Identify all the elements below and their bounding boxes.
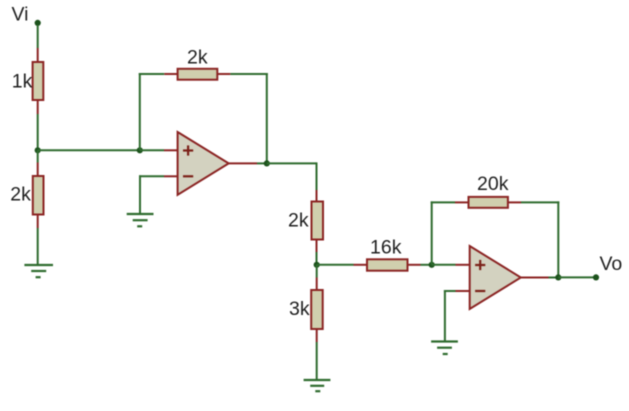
wire down to ground G3 [444, 290, 446, 341]
pin R1 top [37, 48, 39, 63]
minus symbol U2 [475, 290, 485, 292]
wire node D to R6 [317, 264, 354, 266]
node Vo terminal dot [593, 274, 599, 280]
wire node D down [316, 265, 318, 278]
svg-text:2k: 2k [187, 47, 208, 69]
node F junction dot [555, 274, 561, 280]
resistor R2 2k [33, 176, 44, 215]
wire node A down [37, 150, 39, 162]
pin R7 left [455, 201, 469, 203]
wire R5 to ground G4 [316, 342, 318, 380]
pin R3 left [164, 73, 177, 75]
ground G1 [24, 265, 53, 277]
node D junction dot [314, 262, 320, 268]
wire feedback top-left horizontal [139, 73, 165, 75]
resistor R7 20k [469, 197, 508, 208]
node B junction dot [137, 147, 143, 153]
svg-text:Vo: Vo [600, 253, 623, 275]
node E junction dot [429, 262, 435, 268]
pin R3 right [217, 73, 230, 75]
wire node F to Vo terminal [558, 276, 596, 278]
svg-text:2k: 2k [10, 184, 31, 206]
wire down to ground G2 [139, 175, 141, 213]
pin U2 inverting input [456, 290, 470, 292]
wire R2 bottom to ground [37, 228, 39, 265]
pin U1 inverting input [164, 175, 178, 177]
op-amp U1 [178, 132, 229, 195]
node A junction dot [35, 147, 41, 153]
wire node A to node B [38, 149, 140, 151]
svg-text:2k: 2k [288, 209, 309, 231]
pin U2 noninverting input [456, 264, 470, 266]
wire U1 minus to ground corner [139, 175, 164, 177]
wire node B to U1 plus pin [140, 149, 164, 151]
wire feedback top-right horizontal [230, 73, 267, 75]
plus symbol U1 [183, 145, 193, 155]
op-amp U2 [470, 246, 521, 309]
ground G3 [431, 342, 458, 355]
ground G2 [127, 214, 154, 226]
pin R4 top [316, 190, 318, 202]
resistor R5 3k [311, 290, 323, 329]
pin R5 bottom [316, 329, 318, 342]
wire feedback2 top-right horizontal [521, 201, 559, 203]
minus symbol U1 [183, 175, 193, 177]
wire Vi to R1 top [37, 25, 39, 48]
wire node E to U2 plus pin [432, 264, 456, 266]
node C junction dot [264, 160, 270, 166]
wire feedback2 right vertical down to node F [557, 201, 559, 277]
ground G4 [304, 380, 331, 391]
wire R6 to node E [421, 264, 432, 266]
svg-text:Vi: Vi [12, 3, 29, 25]
svg-text:1k: 1k [12, 71, 33, 93]
wire feedback right vertical down to node C [266, 73, 268, 163]
plus symbol U2 [475, 260, 485, 270]
wire U2 output to node F [549, 277, 559, 279]
wire node E up to feedback R7 [431, 201, 433, 264]
pin R2 bottom [37, 215, 39, 229]
pin R1 bottom [37, 100, 39, 114]
pin R7 right [508, 201, 521, 203]
pin U2 output [521, 277, 549, 279]
pin R5 top [316, 278, 318, 291]
pin U1 output [229, 162, 257, 164]
resistor R6 16k [367, 259, 408, 270]
pin R6 left [354, 264, 368, 266]
wire node C to corner [267, 162, 317, 164]
svg-text:20k: 20k [477, 173, 509, 195]
pin R4 bottom [316, 240, 318, 253]
wire feedback2 top-left horizontal [431, 201, 455, 203]
wire U1 output to node C [257, 162, 267, 164]
wire corner down to R4 [316, 162, 318, 190]
pin R2 top [37, 163, 39, 177]
svg-text:16k: 16k [370, 237, 402, 259]
wire R1 bottom to node A [37, 114, 39, 150]
pin U1 noninverting input [164, 149, 178, 151]
wire node B up to feedback R3 [139, 73, 141, 150]
resistor R4 2k [312, 202, 324, 240]
pin R6 right [408, 264, 421, 266]
node Vi terminal dot [35, 20, 41, 26]
resistor R3 2k feedback [178, 69, 218, 80]
wire R4 to node D [316, 252, 318, 265]
resistor R1 1k [33, 62, 44, 100]
svg-text:3k: 3k [289, 298, 310, 320]
wire U2 minus to ground corner [444, 290, 456, 292]
